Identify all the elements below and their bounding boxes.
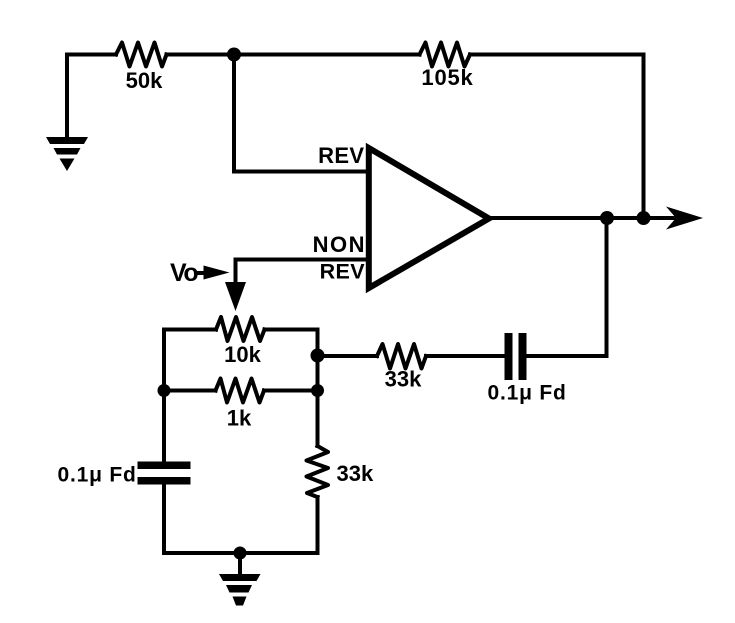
resistor R 33k vertical	[307, 446, 329, 497]
node dot output-to-RC	[600, 211, 614, 225]
svg-text:1k: 1k	[227, 406, 252, 431]
wire: 33k to pot node	[318, 354, 378, 358]
svg-text:0.1μ Fd: 0.1μ Fd	[488, 382, 567, 405]
node A dot (top rail / REV branch)	[227, 48, 241, 62]
wire: top rail middle segment	[167, 53, 420, 57]
output arrow	[666, 207, 703, 230]
resistor R 33k horizontal	[377, 344, 426, 369]
wire: cap to 33k	[426, 354, 503, 358]
wire: top rail left segment	[67, 53, 116, 57]
wire: op-amp output	[488, 216, 674, 220]
node dot 1k left	[158, 384, 171, 397]
wire: pot right vertical lower	[316, 497, 320, 553]
wire: 1k row	[164, 389, 216, 393]
svg-text:33k: 33k	[337, 461, 374, 486]
svg-text:50k: 50k	[126, 68, 163, 93]
capacitor C 0.1uFd right (vertical plates)	[505, 333, 527, 380]
op-amp U1	[369, 148, 489, 288]
pot top rail left	[164, 328, 216, 332]
svg-text:NON: NON	[313, 232, 366, 257]
svg-text:Vo: Vo	[170, 259, 198, 287]
ground symbol bottom	[219, 574, 261, 606]
svg-text:105k: 105k	[421, 65, 473, 90]
svg-text:0.1μ Fd: 0.1μ Fd	[58, 464, 137, 487]
wire: top rail right segment	[470, 53, 644, 57]
wire: bottom rail	[164, 551, 318, 555]
svg-text:REV: REV	[318, 143, 364, 168]
node dot pot right / 33k branch	[311, 349, 325, 363]
wire: 1k row right	[264, 389, 318, 393]
resistor R 1k	[216, 379, 265, 403]
svg-text:10k: 10k	[224, 342, 261, 367]
wire: below left capacitor	[162, 485, 166, 554]
svg-text:REV: REV	[320, 260, 366, 284]
wire: from node A down to REV input	[234, 55, 368, 172]
Vo arrow	[197, 271, 208, 275]
resistor R 10k (pot)	[216, 317, 265, 341]
node dot bottom ground	[234, 547, 247, 560]
resistor R 105k	[420, 43, 471, 67]
wire: right vertical from top rail to output node	[642, 55, 646, 219]
wire: pot left vertical	[162, 330, 166, 462]
wiper arrow to pot 10k	[225, 282, 246, 311]
svg-text:33k: 33k	[385, 367, 422, 392]
node dot output-feedback	[637, 211, 651, 225]
wire: NON REV input	[236, 260, 369, 284]
wire: output node down to RC branch	[528, 218, 607, 356]
resistor R 50k	[116, 43, 167, 67]
ground symbol top-left	[46, 137, 88, 171]
pot top rail right	[265, 328, 318, 332]
wire: ground stub	[238, 553, 242, 575]
node dot 1k right	[311, 384, 324, 397]
wire: left vertical to ground	[65, 55, 69, 139]
wire: pot right vertical upper	[316, 330, 320, 447]
capacitor C 0.1uFd left (horizontal plates)	[138, 462, 191, 485]
